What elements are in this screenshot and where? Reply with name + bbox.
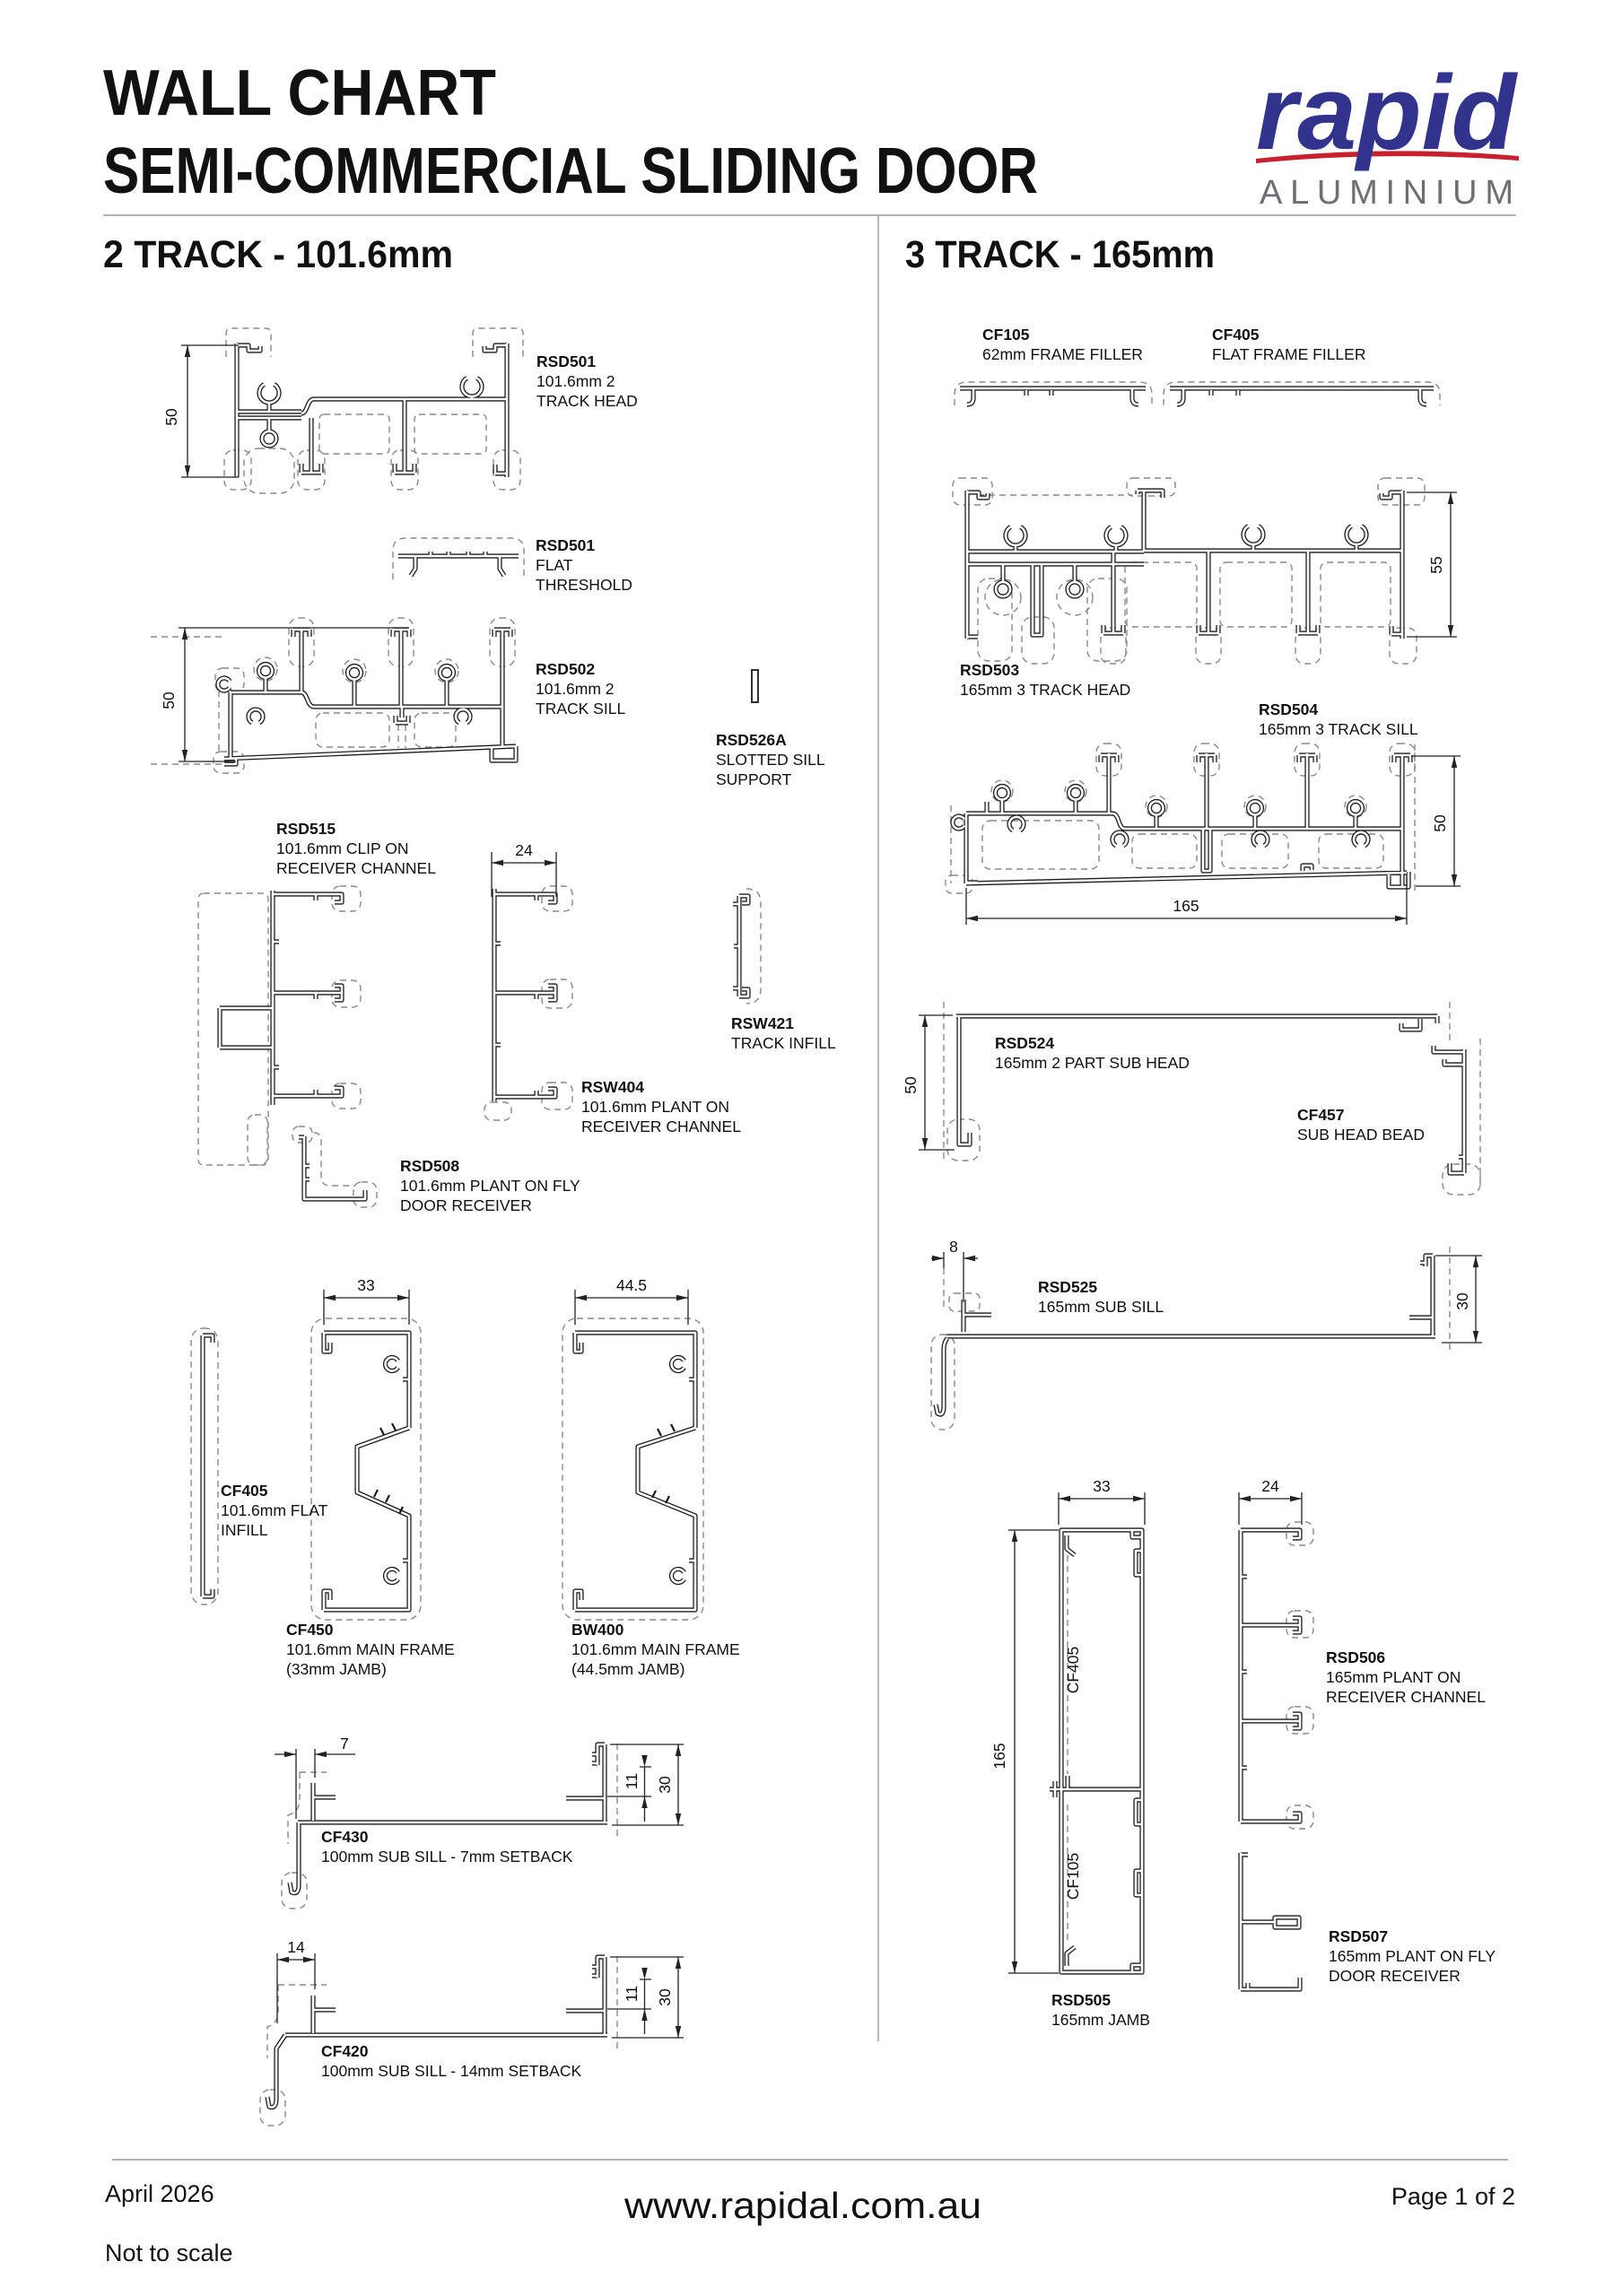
profile CF105 62mm frame filler — [960, 388, 1146, 404]
profile RSD524 2 part sub head — [956, 1016, 1437, 1144]
svg-text:DOOR RECEIVER: DOOR RECEIVER — [1329, 1967, 1461, 1985]
svg-text:SEMI-COMMERCIAL SLIDING DOOR: SEMI-COMMERCIAL SLIDING DOOR — [103, 135, 1038, 207]
svg-text:101.6mm 2: 101.6mm 2 — [536, 372, 615, 390]
logo red swoosh — [1256, 151, 1519, 163]
dim 8 RSD525 — [931, 1252, 978, 1302]
svg-text:RSD501: RSD501 — [536, 352, 596, 370]
RSD515 dashed mating jamb — [198, 893, 268, 1165]
profile RSD507 plant on fly door receiver — [1241, 1853, 1300, 1989]
svg-text:165mm PLANT ON: 165mm PLANT ON — [1326, 1668, 1461, 1686]
dim 7 CF430 — [275, 1749, 355, 1819]
profile RSD508 plant on fly door receiver — [299, 1136, 365, 1199]
RSD502 dashed mushroom circles — [254, 657, 277, 681]
svg-text:3 TRACK - 165mm: 3 TRACK - 165mm — [905, 233, 1215, 276]
profile CF457 sub head bead — [1434, 1046, 1464, 1173]
svg-text:165mm 3 TRACK HEAD: 165mm 3 TRACK HEAD — [960, 681, 1130, 699]
profile RSW421 track infill — [733, 896, 748, 996]
svg-text:2 TRACK - 101.6mm: 2 TRACK - 101.6mm — [103, 233, 453, 276]
BW400 teeth — [652, 1424, 675, 1503]
svg-text:RSD501: RSD501 — [536, 536, 595, 554]
svg-text:30: 30 — [656, 1988, 674, 2006]
CF405 filler dashed envelope — [1164, 382, 1440, 405]
svg-text:101.6mm CLIP ON: 101.6mm CLIP ON — [276, 839, 409, 857]
dim 50 RSD501 — [181, 345, 239, 477]
svg-text:62mm FRAME FILLER: 62mm FRAME FILLER — [982, 345, 1143, 363]
RSD504 dashed mushroom circles — [991, 780, 1013, 802]
profile CF405 flat frame filler — [1170, 388, 1434, 404]
svg-text:CF405: CF405 — [1064, 1647, 1082, 1694]
svg-text:165: 165 — [990, 1743, 1008, 1769]
dim 33 RSD505 — [1059, 1492, 1145, 1525]
svg-text:33: 33 — [357, 1276, 374, 1294]
RSD525 dashed lines — [1449, 1247, 1451, 1350]
RSD502 dashed pockets — [316, 713, 389, 747]
svg-text:(44.5mm JAMB): (44.5mm JAMB) — [571, 1660, 685, 1678]
svg-text:CF450: CF450 — [286, 1621, 334, 1639]
svg-text:100mm SUB SILL - 14mm SETBACK: 100mm SUB SILL - 14mm SETBACK — [321, 2062, 581, 2080]
svg-text:RECEIVER CHANNEL: RECEIVER CHANNEL — [581, 1118, 741, 1135]
svg-text:165mm PLANT ON FLY: 165mm PLANT ON FLY — [1329, 1947, 1496, 1965]
profile RSD503 3 track head — [967, 491, 1402, 639]
svg-text:11: 11 — [623, 1986, 641, 2002]
profile RSD505 165mm jamb — [1050, 1530, 1142, 1972]
svg-text:SLOTTED SILL: SLOTTED SILL — [716, 751, 825, 769]
dim 30 CF430 — [610, 1744, 684, 1825]
svg-text:24: 24 — [515, 841, 533, 859]
svg-text:CF105: CF105 — [1064, 1853, 1082, 1900]
svg-text:101.6mm MAIN FRAME: 101.6mm MAIN FRAME — [286, 1640, 455, 1658]
profile RSD502 2 track sill — [218, 630, 516, 764]
profile CF450 main frame 33mm jamb — [324, 1333, 409, 1610]
svg-text:RSD505: RSD505 — [1051, 1991, 1111, 2009]
dim 11 CF420 — [607, 1979, 651, 2034]
svg-text:30: 30 — [1453, 1292, 1471, 1310]
RSD501 dashed panel pockets — [319, 414, 389, 454]
svg-text:101.6mm 2: 101.6mm 2 — [536, 680, 615, 698]
RSW404 dashed arm-end loops — [542, 886, 572, 911]
svg-text:RSD515: RSD515 — [276, 820, 336, 838]
dim 55 RSD503 — [1407, 492, 1457, 637]
dim 24 RSW404 — [492, 852, 556, 897]
svg-text:BW400: BW400 — [571, 1621, 624, 1639]
svg-text:RSD526A: RSD526A — [716, 731, 787, 749]
svg-text:Not to scale: Not to scale — [105, 2239, 233, 2266]
svg-text:RSD503: RSD503 — [960, 661, 1019, 679]
profile RSW404 plant on receiver channel — [494, 889, 555, 1101]
CF450 teeth — [374, 1423, 403, 1514]
RSD524 dashed lines — [943, 1002, 945, 1159]
svg-text:FLAT: FLAT — [536, 556, 573, 574]
profile BW400 main frame 44.5mm jamb — [575, 1333, 695, 1610]
column divider — [877, 215, 879, 2041]
svg-text:RSW404: RSW404 — [581, 1078, 644, 1096]
svg-text:30: 30 — [656, 1776, 674, 1794]
profile RSD525 sub sill — [936, 1256, 1435, 1414]
svg-text:CF405: CF405 — [221, 1482, 268, 1500]
profile CF420 sub sill 14mm setback — [267, 1957, 607, 2108]
svg-text:INFILL: INFILL — [221, 1521, 268, 1539]
dim 165 RSD504 — [966, 877, 1407, 925]
svg-text:165mm 3 TRACK SILL: 165mm 3 TRACK SILL — [1259, 720, 1418, 738]
CF405 infill dashed capsule — [191, 1328, 218, 1605]
RSD504 dashed fin capsules — [1096, 744, 1121, 776]
svg-text:Page 1 of 2: Page 1 of 2 — [1391, 2183, 1515, 2210]
svg-text:TRACK SILL: TRACK SILL — [536, 700, 625, 717]
svg-text:TRACK HEAD: TRACK HEAD — [536, 392, 638, 410]
RSD515 dashed arm-end loops — [332, 886, 361, 911]
svg-text:101.6mm FLAT: 101.6mm FLAT — [221, 1501, 328, 1519]
svg-text:CF430: CF430 — [321, 1828, 369, 1846]
dim 30 RSD525 — [1435, 1256, 1482, 1343]
svg-text:TRACK INFILL: TRACK INFILL — [731, 1034, 836, 1052]
svg-text:RSW421: RSW421 — [731, 1014, 794, 1032]
svg-text:FLAT FRAME FILLER: FLAT FRAME FILLER — [1212, 345, 1365, 363]
svg-text:www.rapidal.com.au: www.rapidal.com.au — [624, 2185, 981, 2226]
svg-text:165mm JAMB: 165mm JAMB — [1051, 2011, 1150, 2029]
RSD501 dashed envelope top-right — [473, 328, 523, 357]
svg-text:rapid: rapid — [1256, 54, 1519, 172]
svg-text:101.6mm PLANT ON FLY: 101.6mm PLANT ON FLY — [400, 1177, 580, 1195]
svg-text:RSD507: RSD507 — [1329, 1927, 1388, 1945]
svg-text:RECEIVER CHANNEL: RECEIVER CHANNEL — [276, 859, 436, 877]
RSD502 dashed fin capsules — [289, 618, 314, 666]
svg-text:ALUMINIUM: ALUMINIUM — [1260, 174, 1515, 212]
svg-text:14: 14 — [287, 1938, 305, 1956]
RSD504 dashed pockets — [982, 821, 1099, 869]
dim 30 CF420 — [610, 1957, 684, 2038]
svg-text:RSD502: RSD502 — [536, 660, 595, 678]
svg-text:11: 11 — [623, 1773, 641, 1789]
dim 14 CF420 — [277, 1953, 315, 2023]
profile RSD504 3 track sill — [953, 753, 1410, 887]
svg-text:RSD504: RSD504 — [1259, 700, 1318, 718]
dim 50 RSD504 — [1411, 756, 1461, 886]
CF105 filler dashed envelope — [955, 382, 1152, 405]
profile RSD526A slotted sill support — [752, 670, 758, 702]
CF450 dashed envelope — [311, 1318, 421, 1620]
RSD506 dashed arm-end loops — [1286, 1522, 1313, 1545]
svg-text:100mm SUB SILL - 7mm SETBACK: 100mm SUB SILL - 7mm SETBACK — [321, 1848, 573, 1865]
svg-text:RSD524: RSD524 — [995, 1034, 1054, 1052]
svg-text:8: 8 — [949, 1238, 958, 1256]
svg-text:33: 33 — [1093, 1477, 1110, 1495]
profile RSD515 clip on receiver channel — [220, 891, 342, 1105]
svg-text:WALL CHART: WALL CHART — [103, 57, 496, 129]
svg-text:RECEIVER CHANNEL: RECEIVER CHANNEL — [1326, 1688, 1486, 1706]
dim 44.5 BW400 — [575, 1290, 688, 1325]
RSD508 dashed envelope — [314, 1133, 355, 1186]
RSD503 dashed boxes — [953, 478, 992, 505]
RSD501 dashed door pocket dome — [244, 448, 294, 493]
svg-text:CF457: CF457 — [1297, 1106, 1345, 1124]
svg-text:44.5: 44.5 — [616, 1276, 647, 1294]
svg-text:24: 24 — [1261, 1477, 1279, 1495]
RSD505 hidden filler lines — [1067, 1555, 1068, 1941]
svg-text:THRESHOLD: THRESHOLD — [536, 576, 632, 594]
dim 50 RSD502 — [179, 628, 408, 761]
svg-text:101.6mm MAIN FRAME: 101.6mm MAIN FRAME — [571, 1640, 740, 1658]
dim 165 RSD505 — [1008, 1530, 1059, 1973]
svg-text:DOOR RECEIVER: DOOR RECEIVER — [400, 1196, 532, 1214]
svg-text:RSD508: RSD508 — [400, 1157, 459, 1175]
header rule — [103, 214, 1516, 216]
RSD502 hidden centre leg — [398, 725, 405, 748]
dim 11 CF430 — [607, 1767, 651, 1822]
svg-text:RSD525: RSD525 — [1038, 1278, 1097, 1296]
CF457 dashed lines — [1479, 1039, 1481, 1186]
svg-text:April 2026: April 2026 — [105, 2180, 214, 2207]
svg-text:7: 7 — [340, 1735, 349, 1752]
profile RSD506 plant on receiver channel — [1241, 1530, 1300, 1822]
CF430 dashed lines — [616, 1744, 618, 1837]
RSD501 dashed foot capsules — [224, 450, 251, 490]
svg-text:50: 50 — [162, 408, 180, 426]
svg-text:50: 50 — [160, 691, 178, 709]
svg-text:(33mm JAMB): (33mm JAMB) — [286, 1660, 387, 1678]
svg-text:50: 50 — [1431, 814, 1449, 832]
svg-text:CF420: CF420 — [321, 2042, 369, 2060]
FOOTER — [112, 2159, 1508, 2161]
profile RSD501 2 track head — [237, 344, 507, 477]
profile RSD501 flat threshold — [398, 552, 519, 576]
svg-text:165mm 2 PART SUB HEAD: 165mm 2 PART SUB HEAD — [995, 1054, 1190, 1072]
svg-text:50: 50 — [902, 1076, 920, 1094]
CF420 dashed lines — [616, 1956, 618, 2049]
svg-text:101.6mm PLANT ON: 101.6mm PLANT ON — [581, 1098, 729, 1116]
svg-text:165: 165 — [1173, 897, 1199, 915]
svg-text:SUB HEAD BEAD: SUB HEAD BEAD — [1297, 1126, 1425, 1144]
profile CF405 101.6mm flat infill — [203, 1335, 213, 1596]
svg-text:CF105: CF105 — [982, 326, 1030, 344]
dim 24 RSD506 — [1239, 1492, 1302, 1525]
RSD501 dashed envelope top-left — [226, 328, 271, 357]
dim 50 RSD524 — [919, 1015, 955, 1150]
svg-text:55: 55 — [1427, 556, 1445, 573]
RSD502 dashed left wall bits — [215, 668, 244, 691]
svg-text:RSD506: RSD506 — [1326, 1648, 1385, 1666]
RSD501 flat threshold dashed envelope — [393, 538, 524, 579]
svg-text:CF405: CF405 — [1212, 326, 1260, 344]
svg-text:165mm SUB SILL: 165mm SUB SILL — [1038, 1298, 1164, 1316]
svg-text:SUPPORT: SUPPORT — [716, 770, 792, 788]
BW400 dashed envelope — [562, 1318, 703, 1620]
RSW421 dashed envelope — [746, 889, 761, 1004]
profile CF430 sub sill 7mm setback — [290, 1744, 607, 1893]
dim 33 CF450 — [324, 1290, 409, 1325]
